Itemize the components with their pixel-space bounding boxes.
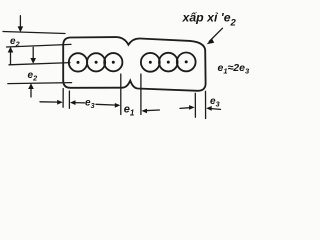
arrowhead left at right e3 right ext bbox=[206, 106, 212, 111]
arrowhead down (e2 upper top) bbox=[18, 26, 24, 32]
turn circle R1 bbox=[141, 53, 160, 72]
dim line left e3 (right segment) bbox=[74, 102, 85, 104]
dim line right of e1 bbox=[145, 109, 160, 112]
arrowhead left at circle-left ext bbox=[70, 100, 76, 105]
turn circle L1 bbox=[69, 53, 87, 71]
conductor dot R1 bbox=[149, 61, 152, 64]
leader line to corner bbox=[209, 28, 222, 41]
dim line toward right e3 bbox=[180, 107, 190, 110]
winding group outline (two merged rounded boxes) bbox=[63, 37, 205, 91]
dim e2 upper: bottom witness line bbox=[7, 44, 72, 47]
dim line into left e3 (left segment) bbox=[40, 101, 59, 103]
dim e2 upper: down arrow stem bbox=[19, 16, 21, 28]
extension line first circle left edge bbox=[68, 91, 70, 108]
conductor dot L1 bbox=[77, 61, 80, 64]
arrowhead up (e2 lower bottom) bbox=[28, 83, 34, 89]
dim e2 lower: down arrow stem bbox=[32, 47, 34, 59]
extension line box right edge bbox=[205, 91, 207, 118]
extension line last circle right edge bbox=[194, 93, 196, 117]
arrowhead up (e2 upper bottom) bbox=[8, 47, 14, 53]
conductor dot L2 bbox=[95, 61, 98, 64]
arrowhead down (e2 lower top) bbox=[30, 58, 36, 64]
dim e2 upper: top witness line bbox=[3, 32, 65, 34]
extension line box left edge bbox=[62, 89, 64, 108]
arrowhead right at right e3 left ext bbox=[189, 105, 195, 110]
conductor dot R3 bbox=[185, 60, 188, 63]
turn circle L3 bbox=[104, 53, 122, 71]
dim e2 upper: up arrow stem bbox=[10, 52, 12, 65]
dim e2 lower: bottom witness line bbox=[8, 83, 72, 84]
arrowhead on leader bbox=[207, 39, 215, 45]
arrowhead right at box-left ext bbox=[57, 100, 63, 105]
conductor dot L3 bbox=[112, 61, 115, 64]
turn circle L2 bbox=[87, 53, 105, 71]
dim line right of right e3 bbox=[210, 108, 221, 111]
extension line right group left edge bbox=[140, 74, 142, 115]
arrowhead left at e1 right ext bbox=[142, 109, 148, 114]
extension line left group right edge bbox=[120, 74, 122, 115]
turn circle R3 bbox=[177, 53, 196, 72]
conductor dot R2 bbox=[167, 61, 170, 64]
dim e2 lower: up arrow stem bbox=[30, 88, 32, 98]
arrowhead right at e1 left ext bbox=[115, 103, 121, 108]
turn circle R2 bbox=[159, 53, 178, 72]
dim line toward e1 bbox=[96, 103, 117, 106]
dim e2 lower: top witness line bbox=[9, 63, 70, 65]
